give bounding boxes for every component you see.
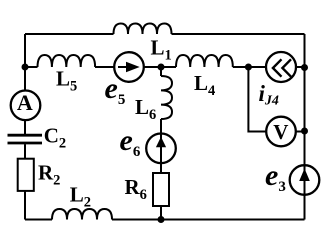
svg-text:A: A xyxy=(17,90,33,115)
svg-text:V: V xyxy=(273,120,288,144)
